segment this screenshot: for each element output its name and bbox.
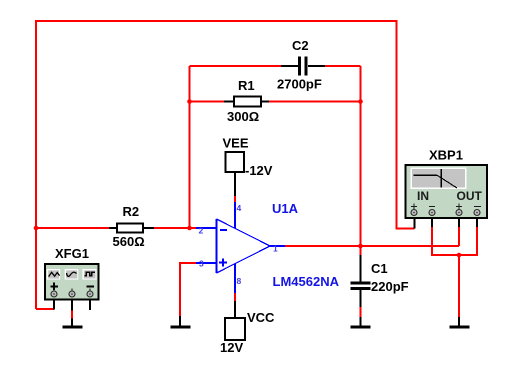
svg-text:12V: 12V bbox=[220, 340, 243, 355]
svg-text:OUT: OUT bbox=[457, 189, 483, 203]
svg-text:C2: C2 bbox=[292, 38, 309, 53]
svg-text:R2: R2 bbox=[123, 204, 140, 219]
svg-text:XFG1: XFG1 bbox=[55, 246, 89, 261]
svg-text:220pF: 220pF bbox=[371, 279, 409, 294]
svg-text:R1: R1 bbox=[238, 78, 255, 93]
svg-text:2700pF: 2700pF bbox=[277, 77, 322, 92]
svg-text:300Ω: 300Ω bbox=[227, 109, 259, 124]
svg-text:3: 3 bbox=[199, 259, 204, 269]
svg-text:-12V: -12V bbox=[245, 163, 273, 178]
svg-text:VEE: VEE bbox=[223, 136, 249, 151]
svg-text:8: 8 bbox=[237, 276, 242, 286]
svg-text:4: 4 bbox=[237, 203, 242, 213]
svg-text:1: 1 bbox=[273, 244, 278, 254]
svg-text:VCC: VCC bbox=[247, 310, 275, 325]
svg-text:IN: IN bbox=[417, 189, 429, 203]
svg-text:C1: C1 bbox=[371, 261, 388, 276]
svg-text:U1A: U1A bbox=[272, 201, 299, 216]
svg-text:LM4562NA: LM4562NA bbox=[273, 274, 340, 289]
svg-text:560Ω: 560Ω bbox=[113, 234, 145, 249]
svg-text:XBP1: XBP1 bbox=[429, 148, 463, 163]
svg-text:2: 2 bbox=[199, 226, 204, 236]
